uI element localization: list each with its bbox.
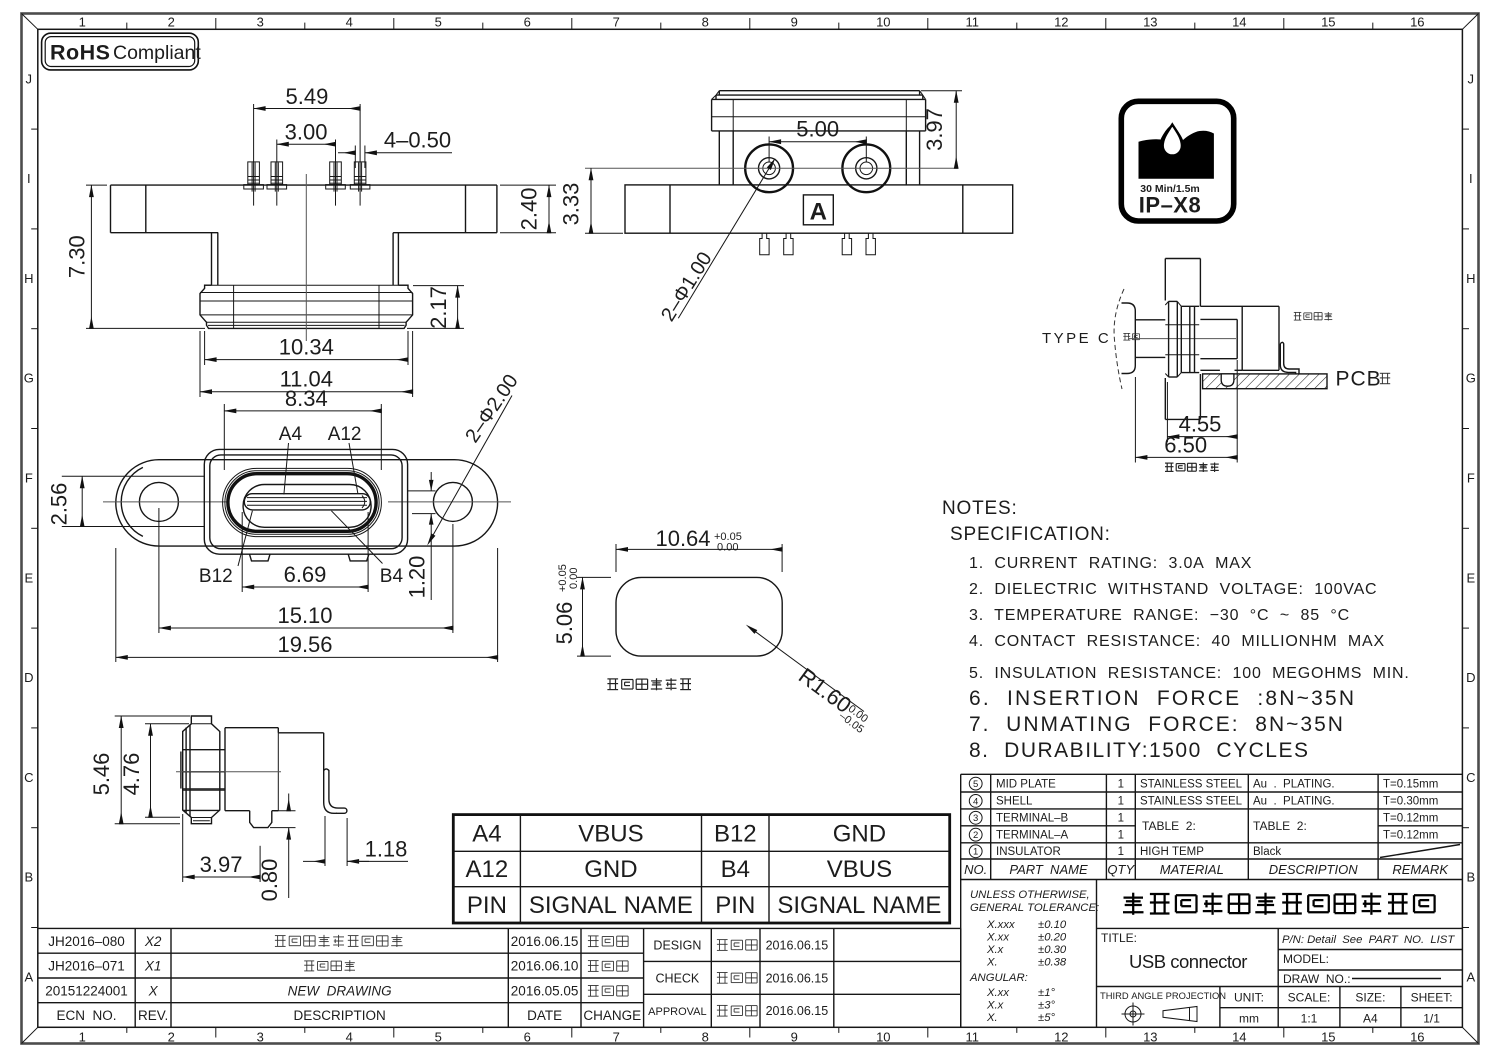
svg-text:PART NAME: PART NAME [1009, 862, 1088, 877]
svg-text:B: B [24, 870, 33, 885]
svg-text:3.00: 3.00 [285, 120, 328, 145]
dim 3.00 [276, 140, 278, 151]
svg-text:A: A [1466, 970, 1475, 985]
svg-text:1/1: 1/1 [1423, 1012, 1440, 1026]
dim 0.80 [274, 810, 296, 812]
dim 10.64 [615, 544, 617, 572]
centerline through holes [103, 501, 227, 503]
labels [1294, 312, 1333, 321]
leader 2-diam2.00 [433, 396, 512, 536]
svg-text:1.18: 1.18 [365, 837, 408, 862]
svg-text:REV.: REV. [138, 1008, 168, 1023]
dim 5.49 [253, 104, 255, 150]
svg-text:7.30: 7.30 [64, 235, 89, 278]
svg-text:4.76: 4.76 [119, 753, 144, 796]
svg-text:T=0.30mm: T=0.30mm [1383, 796, 1438, 808]
svg-text:3.97: 3.97 [922, 108, 947, 151]
svg-text:X.xx: X.xx [986, 987, 1009, 999]
flange plate [111, 184, 497, 186]
svg-text:11: 11 [966, 1030, 980, 1045]
svg-text:5. INSULATION RESISTANCE: 1: 5. INSULATION RESISTANCE: 100 MEGOHMS MI… [969, 665, 1410, 682]
svg-text:1: 1 [1118, 778, 1124, 790]
svg-text:E: E [1466, 570, 1475, 585]
dim 8.34 [223, 404, 225, 470]
screw bosses 2x [745, 144, 793, 192]
dim 2.56 [62, 475, 127, 477]
caption: cutout suggestion [607, 678, 691, 690]
o-ring edges [127, 475, 204, 477]
dim 19.56 [115, 548, 117, 662]
svg-text:A: A [810, 199, 827, 226]
svg-text:TERMINAL–B: TERMINAL–B [996, 813, 1069, 825]
svg-text:SHELL: SHELL [996, 796, 1033, 808]
svg-text:1. CURRENT RATING: 3.0A MA: 1. CURRENT RATING: 3.0A MAX [969, 555, 1252, 572]
svg-text:VBUS: VBUS [827, 856, 892, 883]
svg-text:JH2016–071: JH2016–071 [48, 959, 125, 974]
svg-text:THIRD ANGLE PROJECTION: THIRD ANGLE PROJECTION [1100, 990, 1226, 1001]
svg-text:±5°: ±5° [1038, 1012, 1055, 1024]
svg-text:15.10: 15.10 [277, 603, 332, 628]
svg-text:PCB: PCB [1336, 368, 1382, 391]
svg-text:±1°: ±1° [1038, 987, 1055, 999]
svg-text:3: 3 [973, 813, 978, 824]
third angle projection symbols [1122, 1003, 1198, 1026]
svg-text:0.80: 0.80 [257, 859, 282, 902]
cavity [1200, 318, 1237, 320]
svg-text:1: 1 [1118, 813, 1124, 825]
leader 2-diam1.00 [678, 168, 769, 318]
svg-text:2–Φ2.00: 2–Φ2.00 [461, 371, 522, 447]
svg-text:2: 2 [973, 830, 978, 841]
svg-text:ECN NO.: ECN NO. [56, 1008, 116, 1023]
dim 7.30 [86, 184, 107, 186]
svg-text:F: F [25, 471, 33, 486]
center line [585, 167, 958, 169]
screw holes [139, 482, 178, 521]
svg-text:APPROVAL: APPROVAL [648, 1006, 707, 1018]
svg-text:2–Φ1.00: 2–Φ1.00 [657, 248, 717, 325]
svg-text:2. DIELECTRIC WITHSTAND VOL: 2. DIELECTRIC WITHSTAND VOLTAGE: 100VAC [969, 581, 1377, 598]
svg-text:0.00: 0.00 [714, 542, 738, 554]
svg-text:USB connector: USB connector [1129, 951, 1247, 972]
dim 10.34 [204, 331, 206, 365]
svg-text:DATE: DATE [527, 1008, 562, 1023]
svg-text:A: A [24, 970, 33, 985]
svg-text:D: D [1466, 670, 1475, 685]
svg-text:B4: B4 [380, 566, 404, 587]
svg-text:2016.06.10: 2016.06.10 [511, 959, 579, 974]
svg-text:16: 16 [1410, 15, 1424, 30]
svg-text:J: J [1468, 71, 1475, 86]
svg-text:7: 7 [613, 1030, 620, 1045]
panel cut-out recommendation [552, 526, 876, 736]
caption [1165, 463, 1219, 473]
svg-text:7: 7 [613, 15, 620, 30]
male plug body [1122, 303, 1136, 374]
svg-text:6: 6 [524, 1030, 531, 1045]
svg-text:I: I [1469, 171, 1473, 186]
wave fill [1139, 125, 1214, 179]
solder boss through PCB [1221, 374, 1234, 386]
socket body [1200, 305, 1279, 307]
svg-text:REMARK: REMARK [1392, 862, 1449, 877]
svg-text:4–0.50: 4–0.50 [384, 128, 451, 153]
svg-text:2.56: 2.56 [47, 483, 72, 526]
svg-text:6.50: 6.50 [1164, 433, 1207, 458]
dim 6.50 [1134, 377, 1136, 463]
svg-text:G: G [1466, 371, 1476, 386]
dim 11.04 [199, 331, 201, 397]
svg-text:D: D [24, 670, 33, 685]
SIDE VIEW with solder tab (bottom-left) [89, 716, 408, 901]
inner edge [182, 788, 225, 790]
svg-text:A4: A4 [472, 821, 501, 848]
svg-text:Compliant: Compliant [113, 42, 201, 64]
svg-text:DESIGN: DESIGN [653, 938, 701, 952]
RoHS Compliant logo [42, 33, 202, 70]
svg-text:Au . PLATING.: Au . PLATING. [1253, 778, 1335, 790]
svg-text:TERMINAL–A: TERMINAL–A [996, 830, 1069, 842]
dim 2.40 [500, 184, 556, 186]
svg-text:H: H [24, 271, 33, 286]
legs [718, 131, 720, 185]
svg-text:1: 1 [79, 15, 86, 30]
svg-text:8. DURABILITY:1500 CYCLES: 8. DURABILITY:1500 CYCLES [969, 739, 1309, 762]
svg-text:UNLESS OTHERWISE,: UNLESS OTHERWISE, [970, 889, 1090, 901]
svg-text:8: 8 [702, 1030, 709, 1045]
svg-text:G: G [24, 371, 34, 386]
seal gasket profile [200, 285, 413, 328]
svg-text:20151224001: 20151224001 [45, 983, 128, 998]
svg-text:14: 14 [1232, 15, 1246, 30]
svg-text:A4: A4 [279, 424, 303, 445]
svg-text:2: 2 [168, 15, 175, 30]
dim 4-0.50 [354, 146, 356, 169]
svg-text:2.40: 2.40 [517, 187, 542, 230]
mounting panel [1165, 258, 1200, 260]
svg-text:CHECK: CHECK [656, 971, 700, 985]
svg-text:IP–X8: IP–X8 [1139, 193, 1201, 218]
NOTES / SPECIFICATION text [942, 498, 1410, 762]
svg-text:2016.06.15: 2016.06.15 [511, 934, 579, 949]
svg-text:4: 4 [346, 1030, 353, 1045]
svg-text:UNIT:: UNIT: [1234, 991, 1264, 1005]
svg-text:MID PLATE: MID PLATE [996, 778, 1056, 790]
svg-text:X.x: X.x [986, 1000, 1004, 1012]
svg-text:2016.06.15: 2016.06.15 [766, 938, 829, 952]
svg-text:SIGNAL NAME: SIGNAL NAME [529, 892, 693, 919]
svg-text:9: 9 [791, 1030, 798, 1045]
bottom solder nub [250, 811, 272, 828]
svg-text:4: 4 [973, 796, 978, 807]
bottom feet [250, 554, 271, 561]
svg-text:X.xx: X.xx [986, 932, 1009, 944]
svg-text:B4: B4 [721, 856, 750, 883]
svg-text:DRAW NO.:: DRAW NO.: [1283, 972, 1351, 986]
svg-text:15: 15 [1321, 15, 1335, 30]
water drop [1163, 125, 1182, 156]
svg-text:T=0.15mm: T=0.15mm [1383, 778, 1438, 790]
VIEW 1: connector side elevation (top-left) [64, 84, 556, 470]
svg-text:HIGH TEMP: HIGH TEMP [1140, 846, 1204, 858]
flange [625, 185, 1013, 233]
svg-text:8: 8 [702, 15, 709, 30]
svg-text:Black: Black [1253, 846, 1281, 858]
svg-text:T=0.12mm: T=0.12mm [1383, 830, 1438, 842]
svg-text:6: 6 [524, 15, 531, 30]
flange stadium [116, 460, 498, 546]
svg-text:PIN: PIN [715, 892, 755, 919]
svg-text:X.: X. [986, 957, 998, 969]
svg-text:12: 12 [1054, 1030, 1068, 1045]
plug barrel lines [1135, 319, 1165, 321]
solder pins (4) [248, 162, 260, 185]
svg-text:11: 11 [966, 15, 980, 30]
svg-text:±0.10: ±0.10 [1038, 919, 1067, 931]
svg-text:6. INSERTION FORCE :8N~35N: 6. INSERTION FORCE :8N~35N [969, 687, 1356, 710]
centerline [305, 174, 307, 341]
title block [961, 880, 1463, 1028]
svg-text:H: H [1466, 271, 1475, 286]
TYPE C mating assembly sketch [1042, 259, 1390, 473]
svg-text:±0.30: ±0.30 [1038, 944, 1067, 956]
svg-text:ANGULAR:: ANGULAR: [969, 972, 1028, 984]
general tolerance block [969, 889, 1099, 1024]
svg-text:2016.06.15: 2016.06.15 [766, 971, 829, 985]
svg-text:5.46: 5.46 [89, 753, 114, 796]
dim 1.18 [324, 816, 326, 866]
svg-text:J: J [26, 71, 33, 86]
svg-text:DESCRIPTION: DESCRIPTION [293, 1008, 385, 1023]
svg-text:13: 13 [1143, 15, 1157, 30]
VIEW 2: connector rear elevation (top-middle) [559, 91, 1013, 326]
svg-text:A4: A4 [1363, 1012, 1378, 1026]
svg-text:SIZE:: SIZE: [1355, 991, 1385, 1005]
dim 3.97 [182, 814, 184, 882]
dim 5.46 [115, 715, 190, 717]
svg-text:STAINLESS STEEL: STAINLESS STEEL [1140, 796, 1243, 808]
svg-text:10: 10 [876, 15, 890, 30]
svg-text:SCALE:: SCALE: [1288, 991, 1331, 1005]
dim 6.69 [241, 512, 243, 592]
svg-text:1:1: 1:1 [1301, 1012, 1318, 1026]
male plug label [1123, 333, 1139, 340]
solder tab L-bracket [324, 769, 347, 813]
svg-text:X1: X1 [144, 959, 162, 974]
svg-text:10.64: 10.64 [655, 526, 710, 551]
svg-text:4. CONTACT RESISTANCE: 40: 4. CONTACT RESISTANCE: 40 MILLIONHM MAX [969, 633, 1385, 650]
dim 5.06 [577, 576, 611, 578]
svg-text:6.69: 6.69 [284, 562, 327, 587]
svg-text:MODEL:: MODEL: [1283, 952, 1329, 966]
IP-X8 waterproof logo [1121, 101, 1233, 221]
svg-text:C: C [24, 770, 33, 785]
PIN signal-name table [453, 815, 949, 923]
seal ribs [185, 728, 187, 814]
male plug cut line (dashed) [1114, 289, 1124, 389]
svg-text:C: C [1466, 770, 1475, 785]
svg-text:B: B [1466, 870, 1475, 885]
dim 3.33 [585, 232, 623, 234]
svg-text:QTY: QTY [1107, 862, 1135, 877]
section marker A [803, 195, 833, 225]
svg-text:9: 9 [791, 15, 798, 30]
svg-text:±3°: ±3° [1038, 1000, 1055, 1012]
svg-text:CHANGE: CHANGE [583, 1008, 641, 1023]
svg-text:STAINLESS STEEL: STAINLESS STEEL [1140, 778, 1243, 790]
svg-text:B12: B12 [714, 821, 757, 848]
svg-text:1: 1 [79, 1030, 86, 1045]
tongue [244, 494, 370, 510]
svg-text:TABLE 2:: TABLE 2: [1253, 819, 1307, 833]
svg-text:T=0.12mm: T=0.12mm [1383, 813, 1438, 825]
svg-text:±0.20: ±0.20 [1038, 932, 1067, 944]
solder pins rear (4) [760, 233, 769, 255]
dim 2.17 [413, 285, 464, 287]
svg-text:mm: mm [1239, 1012, 1259, 1026]
svg-text:PIN: PIN [467, 892, 507, 919]
PCB hatched [1203, 374, 1327, 389]
svg-text:5.00: 5.00 [796, 117, 839, 142]
svg-text:X2: X2 [144, 934, 162, 949]
svg-text:X.xxx: X.xxx [986, 919, 1015, 931]
svg-text:3. TEMPERATURE RANGE: −30: 3. TEMPERATURE RANGE: −30 °C ~ 85 °C [969, 607, 1350, 624]
seal plug profile [183, 716, 220, 824]
svg-text:15: 15 [1321, 1030, 1335, 1045]
svg-text:19.56: 19.56 [277, 632, 332, 657]
seal ribs [1169, 300, 1178, 302]
svg-text:E: E [24, 570, 33, 585]
FRONT VIEW: mating face with flange [47, 371, 523, 662]
svg-text:GND: GND [833, 821, 886, 848]
svg-text:5: 5 [973, 779, 978, 790]
svg-text:10: 10 [876, 1030, 890, 1045]
svg-text:Au . PLATING.: Au . PLATING. [1253, 796, 1335, 808]
svg-text:GND: GND [584, 856, 637, 883]
svg-text:NEW DRAWING: NEW DRAWING [288, 983, 392, 998]
svg-text:10.34: 10.34 [279, 335, 334, 360]
svg-text:±0.38: ±0.38 [1038, 957, 1067, 969]
dim 4.55 [1166, 382, 1168, 442]
title texts [1100, 931, 1455, 1001]
svg-text:I: I [27, 171, 31, 186]
o-ring left cap arc [121, 467, 143, 536]
svg-text:8.34: 8.34 [285, 386, 328, 411]
seal stack rear [719, 90, 919, 92]
svg-text:A12: A12 [466, 856, 509, 883]
svg-text:INSULATOR: INSULATOR [996, 846, 1061, 858]
svg-text:3: 3 [257, 1030, 264, 1045]
svg-text:13: 13 [1143, 1030, 1157, 1045]
svg-text:5: 5 [435, 15, 442, 30]
svg-text:1: 1 [1118, 846, 1124, 858]
solder tab lead [1280, 342, 1299, 374]
leader R1.60 [756, 632, 865, 712]
company name [1123, 893, 1435, 915]
dim 5.00 [768, 137, 770, 163]
svg-text:NO.: NO. [964, 862, 987, 877]
svg-text:5.06: 5.06 [552, 602, 577, 645]
seal rib lines [205, 284, 408, 286]
dim 15.10 [158, 508, 160, 633]
approval signatures block [648, 938, 828, 1018]
svg-text:MATERIAL: MATERIAL [1160, 862, 1224, 877]
svg-text:NOTES:: NOTES: [942, 498, 1018, 519]
receptacle ovals [223, 468, 382, 536]
parts list table [961, 774, 1463, 879]
main body [225, 727, 278, 729]
svg-text:1.20: 1.20 [405, 556, 430, 599]
svg-text:1: 1 [973, 847, 978, 858]
svg-text:SHEET:: SHEET: [1411, 991, 1453, 1005]
svg-text:2.17: 2.17 [426, 286, 451, 329]
svg-text:12: 12 [1054, 15, 1068, 30]
dim 3.97 [921, 90, 962, 92]
svg-text:16: 16 [1410, 1030, 1424, 1045]
svg-text:3.33: 3.33 [559, 183, 584, 226]
svg-text:X: X [148, 983, 159, 998]
dim 4.76 [145, 723, 189, 725]
svg-text:0.00: 0.00 [568, 568, 580, 592]
svg-text:A12: A12 [328, 424, 362, 445]
revision history table [38, 928, 961, 1027]
axis line [176, 771, 281, 773]
svg-text:SPECIFICATION:: SPECIFICATION: [950, 524, 1111, 545]
central body [204, 449, 407, 554]
svg-text:RoHS: RoHS [50, 41, 111, 65]
svg-text:X.: X. [986, 1012, 998, 1024]
svg-text:DESCRIPTION: DESCRIPTION [1269, 862, 1358, 877]
svg-text:TITLE:: TITLE: [1101, 931, 1137, 945]
svg-text:2016.05.05: 2016.05.05 [511, 983, 579, 998]
svg-text:5: 5 [435, 1030, 442, 1045]
svg-text:3.97: 3.97 [200, 852, 243, 877]
svg-text:7. UNMATING FORCE: 8N~35N: 7. UNMATING FORCE: 8N~35N [969, 713, 1345, 736]
neck walls [211, 233, 213, 286]
svg-text:5.49: 5.49 [285, 84, 328, 109]
axis centerline [1129, 338, 1236, 340]
svg-text:2: 2 [168, 1030, 175, 1045]
svg-text:SIGNAL NAME: SIGNAL NAME [777, 892, 941, 919]
svg-text:JH2016–080: JH2016–080 [48, 934, 125, 949]
svg-text:P/N: Detail See PART NO. L: P/N: Detail See PART NO. LIST [1282, 934, 1455, 946]
svg-text:14: 14 [1232, 1030, 1246, 1045]
svg-text:GENERAL TOLERANCE:: GENERAL TOLERANCE: [970, 902, 1099, 914]
svg-text:4: 4 [346, 15, 353, 30]
svg-text:1: 1 [1118, 796, 1124, 808]
svg-text:X.x: X.x [986, 944, 1004, 956]
svg-text:F: F [1467, 471, 1475, 486]
svg-text:1: 1 [1118, 830, 1124, 842]
svg-text:TYPE C: TYPE C [1042, 330, 1111, 347]
svg-text:TABLE 2:: TABLE 2: [1142, 819, 1196, 833]
dim 1.20 [408, 490, 436, 492]
svg-text:VBUS: VBUS [578, 821, 643, 848]
svg-text:3: 3 [257, 15, 264, 30]
svg-text:B12: B12 [199, 566, 233, 587]
svg-text:2016.06.15: 2016.06.15 [766, 1004, 829, 1018]
inner barrel lines [233, 285, 235, 328]
